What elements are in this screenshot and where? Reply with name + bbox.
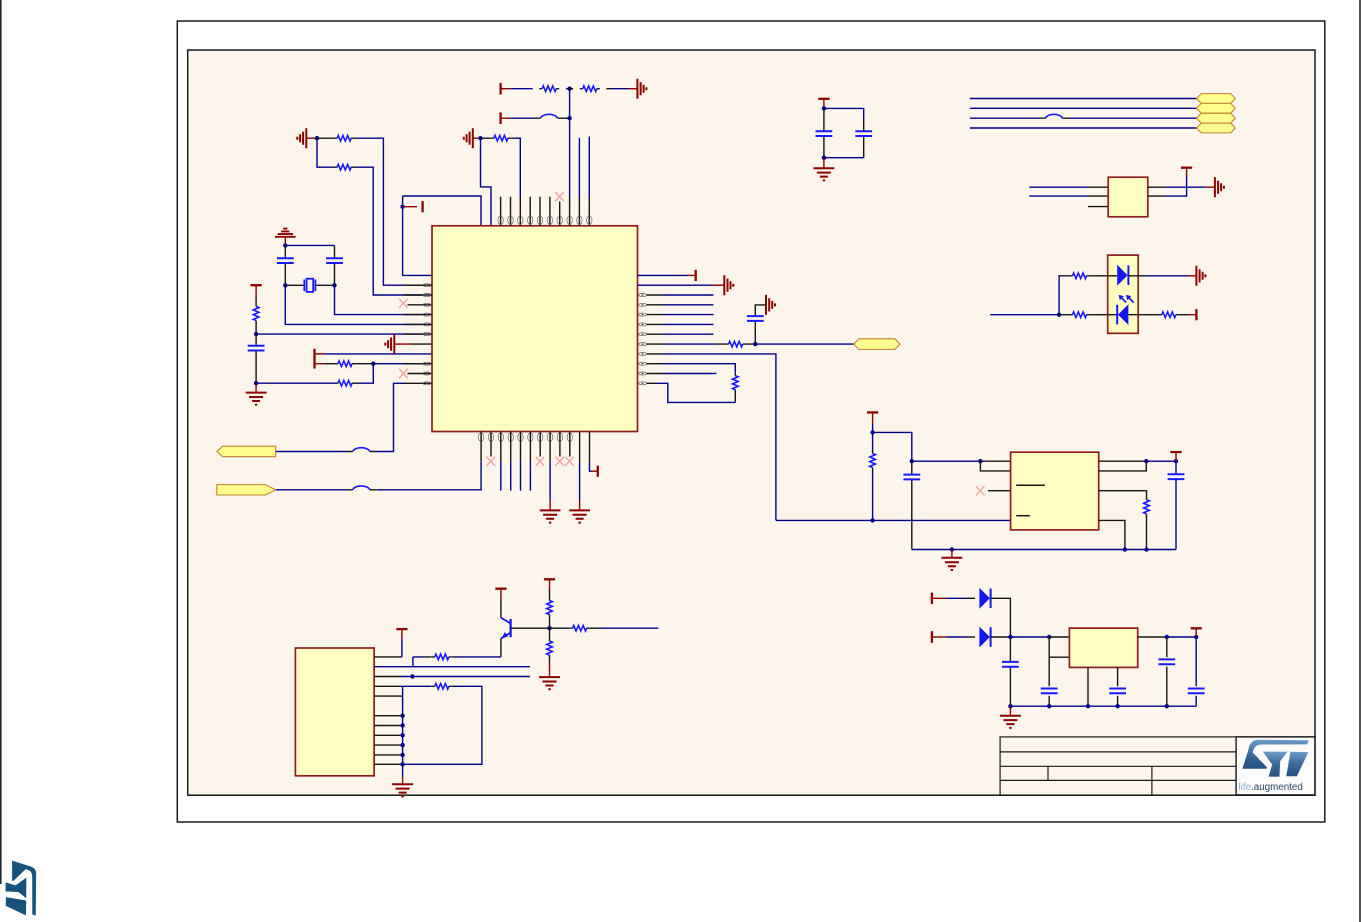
svg-text:life.augmented: life.augmented bbox=[1239, 782, 1303, 793]
port P2 (right pointing) bbox=[217, 485, 276, 495]
LED D2 (left pointing) bbox=[1108, 304, 1139, 325]
wire R4 to U1 pin L2 bbox=[357, 138, 423, 285]
diode D4 bbox=[979, 627, 990, 648]
U2 right pin1 wire bbox=[1099, 460, 1147, 462]
junction node G bbox=[283, 283, 287, 287]
junction node V bbox=[950, 547, 954, 551]
junction node I bbox=[254, 332, 258, 336]
wire W5 bbox=[970, 107, 1197, 109]
lead R13 to power port T10 bbox=[1179, 309, 1197, 320]
column junction dots bbox=[400, 714, 404, 767]
U2 pin name overbar 2 bbox=[1016, 515, 1030, 517]
power port T16 bbox=[396, 629, 407, 657]
ground G6 bbox=[1000, 706, 1021, 728]
wire U4 pin2 to power port T9 bbox=[1148, 168, 1192, 196]
wire hop W3 bbox=[346, 448, 376, 452]
inner border frame (schematic sheet) bbox=[188, 50, 1315, 795]
power port T3 (right facing) bbox=[403, 201, 423, 212]
wire LED input bbox=[990, 314, 1059, 316]
U1 right pin designator bubbles bbox=[639, 294, 647, 385]
title block outline bbox=[1000, 737, 1315, 795]
resistor R4 bbox=[317, 135, 357, 141]
wire node L to hex port bbox=[755, 343, 854, 345]
U3 bottom stub 1 bbox=[1087, 667, 1089, 706]
wire U4 input 1 bbox=[1029, 186, 1108, 188]
wire loop back to pin R12 bbox=[655, 383, 735, 402]
U1 top pin designator bubbles bbox=[498, 216, 592, 224]
resistor R1 bbox=[533, 86, 570, 92]
wire port P1 to hop bbox=[276, 451, 347, 453]
power stub T13 bbox=[932, 593, 946, 605]
pin B11 to ground bbox=[579, 432, 581, 510]
wire R16 to Q1 emitter bbox=[455, 656, 501, 658]
junction node D bbox=[400, 205, 404, 209]
capacitor C8 bbox=[1168, 461, 1185, 549]
resistor R18 (vertical pull-up) bbox=[547, 589, 553, 628]
pin R11 floating stub bbox=[647, 373, 717, 375]
wire C6 bottom to node N bbox=[824, 157, 864, 159]
resistor R13 bbox=[1159, 312, 1179, 318]
resistor R2 bbox=[570, 86, 610, 92]
junction node C bbox=[478, 136, 482, 140]
wire T1 to R1 bbox=[511, 88, 533, 90]
wire node Z jog to U3 pin2 bbox=[1049, 637, 1069, 657]
op IC U2 body bbox=[1011, 452, 1099, 530]
J1 pin stubs 5-11 bbox=[374, 696, 403, 764]
U2 pin3 stub with no-ERC X8 bbox=[976, 486, 1011, 495]
power port T5 (tall bar, dual feed) bbox=[315, 349, 326, 369]
power port T11 bbox=[867, 412, 878, 432]
capacitor C2 bbox=[326, 245, 343, 285]
earth ground E2 bbox=[464, 128, 481, 148]
Q1 base wire bbox=[511, 627, 550, 629]
capacitor C5 bbox=[816, 108, 833, 157]
junction node AA bbox=[1165, 635, 1169, 639]
page right edge line bbox=[1359, 0, 1361, 922]
small rotated ST logo bottom-left bbox=[6, 861, 37, 916]
pin B9 stub with no-ERC X6 bbox=[555, 432, 564, 466]
J1 pin1 stub bbox=[374, 656, 402, 658]
earth ground E8 bbox=[1215, 177, 1224, 197]
junction node AD bbox=[547, 626, 551, 630]
ground G7 bbox=[392, 764, 413, 796]
op IC U1 body bbox=[432, 226, 638, 432]
junction node W bbox=[1123, 547, 1127, 551]
junction node U bbox=[1174, 459, 1178, 463]
wire node E down bbox=[317, 138, 334, 167]
page left edge line bbox=[0, 0, 2, 884]
junction node L bbox=[753, 342, 757, 346]
resistor R8 bbox=[325, 361, 373, 367]
lead to U2 pin1 bbox=[980, 460, 1010, 462]
power port T2 bbox=[501, 112, 511, 124]
ground G4 bbox=[814, 158, 835, 181]
no-ERC mark X3 on pin T7 bbox=[555, 192, 564, 201]
wire D2 to R13 bbox=[1138, 314, 1161, 316]
power port T17 (collector) bbox=[495, 589, 506, 600]
capacitor C3 bbox=[248, 334, 265, 383]
ground G1 bbox=[246, 383, 267, 405]
pin R1 to power port T7 bbox=[638, 270, 696, 281]
wire R3 to U1 pin T3 bbox=[514, 138, 520, 197]
U2 right pin2 tie bbox=[1099, 461, 1147, 471]
wire node Y to node Z bbox=[1010, 636, 1049, 638]
port P1 (left pointing) bbox=[217, 446, 276, 457]
rail junction dots bbox=[1008, 704, 1169, 708]
wire node K to U1 pin L10 bbox=[373, 363, 422, 365]
junction node Q bbox=[910, 459, 914, 463]
pin R10 wire to loop resistor bbox=[647, 364, 736, 373]
LED D1 (right pointing) bbox=[1108, 265, 1139, 286]
signal ground E4 bbox=[275, 229, 296, 246]
ST logo cell bbox=[1236, 737, 1315, 795]
junction node Y bbox=[1008, 635, 1012, 639]
jog to U2 pin2 bbox=[980, 461, 1010, 471]
crystal Y1 bbox=[285, 279, 334, 292]
junction node B bbox=[567, 116, 571, 120]
resistor R15 (vertical) bbox=[1144, 497, 1150, 550]
op connector J1 body bbox=[295, 648, 374, 776]
port P5 bbox=[1197, 103, 1236, 113]
wire hop to U1 pin L12 bbox=[376, 383, 404, 451]
wire node F across top bbox=[285, 244, 334, 246]
pin R8 wire to resistor R9 bbox=[647, 343, 666, 345]
wire node T to node U bbox=[1146, 460, 1176, 462]
wire node M to C6 branch bbox=[824, 108, 864, 118]
wire U4 input 2 bbox=[1029, 195, 1108, 197]
wire main VIN rail to U2 pin4 bbox=[776, 519, 1011, 521]
U1 bottom pin designator bubbles bbox=[478, 433, 572, 441]
wire D4 to node Y bbox=[991, 636, 1010, 638]
wire hop W1 bbox=[534, 114, 564, 118]
wire W7 bbox=[970, 127, 1197, 129]
J1 ground column bbox=[402, 686, 404, 764]
resistor R16 bbox=[423, 654, 455, 660]
pin B2 stub with no-ERC X4 bbox=[487, 432, 496, 466]
power port T4 bbox=[251, 285, 262, 296]
wire T13 to D3 bbox=[946, 597, 975, 599]
U1 left pin lead blacks bbox=[404, 285, 432, 383]
port P3 hexagon bbox=[854, 339, 900, 350]
wire node O up to R11 bbox=[1059, 276, 1062, 315]
junction node E bbox=[315, 136, 319, 140]
diode D3 bbox=[979, 588, 990, 609]
junction node A bbox=[567, 87, 571, 91]
resistor R17 bbox=[432, 684, 455, 690]
pins R3-R7 floating stubs bbox=[647, 295, 714, 334]
wire D3 to node Y bbox=[991, 598, 1010, 637]
wire T14 to D4 bbox=[946, 636, 975, 638]
outer border frame bbox=[177, 21, 1325, 822]
title block row lines bbox=[1000, 752, 1236, 781]
wire node I to U1 pin L7 bbox=[256, 333, 423, 335]
junction node H bbox=[332, 283, 336, 287]
capacitor C4 bbox=[747, 305, 765, 344]
power stub T14 bbox=[932, 631, 946, 643]
capacitor C12 bbox=[1158, 637, 1175, 706]
wire pin B1 to port P2 bbox=[480, 432, 482, 462]
J1 pin4 wire to resistor R17 bbox=[374, 685, 432, 687]
junction node K bbox=[371, 362, 375, 366]
pin B12 to side power port T6 bbox=[590, 432, 598, 477]
resistor R3 bbox=[481, 135, 515, 141]
U3 bottom stub 2 with capacitor C11 bbox=[1109, 667, 1126, 706]
U3 output wire bbox=[1138, 636, 1167, 638]
wire node P to cap branch bbox=[873, 432, 912, 461]
power port T8 bbox=[818, 99, 829, 109]
power port T18 bbox=[544, 579, 555, 589]
op IC U3 body bbox=[1069, 628, 1137, 667]
resistor R5 bbox=[334, 164, 357, 170]
earth ground E3 bbox=[297, 128, 317, 148]
pin R12 lead bbox=[647, 382, 655, 384]
junction node R bbox=[870, 518, 874, 522]
ground G5 bbox=[942, 550, 963, 571]
capacitor C1 bbox=[277, 245, 294, 285]
power port T1 (VDD) bbox=[501, 83, 511, 95]
resistor R6 (vertical) bbox=[253, 296, 259, 334]
capacitor C10 bbox=[1041, 657, 1058, 706]
port P4 bbox=[1197, 94, 1236, 104]
resistor R9 bbox=[716, 341, 755, 347]
junction node J bbox=[254, 381, 258, 385]
earth ground E5 on pin L8 bbox=[385, 334, 432, 354]
wire R17 loop down to ground column bbox=[403, 686, 482, 764]
pins B3-B6 floating stubs bbox=[501, 432, 531, 491]
U2 right pin3 to R15 bbox=[1099, 491, 1147, 497]
power port T12 bbox=[1170, 452, 1181, 461]
U2 right pin4 down to rail bbox=[1099, 520, 1125, 549]
junction node AB bbox=[1194, 635, 1198, 639]
transistor Q1 bbox=[501, 599, 511, 657]
photodetector arrows bbox=[1119, 295, 1134, 303]
wire D1 to earth E9 bbox=[1138, 275, 1196, 277]
capacitor C9 bbox=[1002, 637, 1019, 706]
U1 left pin designator bubbles bbox=[423, 284, 431, 385]
wire hop to port P2 bbox=[276, 489, 347, 491]
wire node G to U1 pin L6 bbox=[285, 285, 422, 324]
ST logo graphic bbox=[1242, 740, 1308, 777]
pin R9 long wire down to regulator rail bbox=[647, 354, 776, 521]
wire T2 to hop bbox=[511, 117, 534, 119]
op IC U4 body bbox=[1108, 177, 1148, 217]
wire T5 to U1 pin L9 bbox=[325, 353, 432, 355]
wire node A down to U1 pin T8 bbox=[569, 89, 571, 197]
no-ERC mark X2 on pin L11 bbox=[399, 369, 432, 378]
no-ERC mark X1 on pin L4 bbox=[399, 299, 432, 308]
wire hop to junction bbox=[564, 117, 570, 119]
wire node C down into U1 top edge bbox=[481, 138, 492, 226]
wire stub to U1 pin T10 bbox=[588, 137, 590, 198]
junction node Z bbox=[1047, 635, 1051, 639]
op IC U5 body (LED pair) bbox=[1108, 255, 1139, 333]
wire R7 up to node K bbox=[358, 364, 373, 384]
resistor R7 bbox=[335, 380, 358, 386]
wire R20 output bbox=[599, 627, 658, 629]
wire R2 to earth bbox=[610, 88, 628, 90]
title block column dividers bbox=[1048, 766, 1152, 795]
U4 stub pin 3 bbox=[1088, 206, 1108, 208]
port P6 bbox=[1197, 113, 1236, 123]
capacitor C13 bbox=[1188, 637, 1205, 706]
wire node J to R7 bbox=[256, 382, 335, 384]
junction node X bbox=[1144, 547, 1148, 551]
pin B7 stub with no-ERC X5 bbox=[536, 432, 545, 466]
earth ground E9 bbox=[1196, 266, 1205, 286]
capacitor C7 bbox=[903, 461, 920, 549]
power port T15 bbox=[1191, 628, 1202, 637]
wire U4 out to earth E8 bbox=[1148, 186, 1215, 188]
wire node Z to U3 pin1 bbox=[1049, 636, 1069, 638]
pin B10 stub with no-ERC X7 bbox=[565, 432, 574, 466]
junction node AC bbox=[410, 674, 414, 678]
J1 pin3 wire bbox=[374, 676, 530, 678]
junction node M bbox=[822, 106, 826, 110]
wire emitter row to resistor R16 bbox=[413, 657, 423, 667]
junction node T bbox=[1144, 459, 1148, 463]
U2 pin name overbar 1 bbox=[1016, 484, 1045, 486]
junction node S bbox=[978, 459, 982, 463]
wire node D rail down to U1 pin L1 bbox=[403, 196, 432, 275]
ground G8 bbox=[539, 662, 560, 689]
ground G3 bbox=[569, 510, 590, 522]
J1 pin2 wire bbox=[374, 666, 530, 668]
resistor R12 bbox=[1059, 312, 1108, 318]
wire W6 with hop bbox=[970, 114, 1197, 118]
capacitor C6 bbox=[855, 118, 872, 158]
ground rail of U2 bbox=[912, 549, 1176, 551]
junction node N bbox=[822, 156, 826, 160]
resistor R20 bbox=[550, 625, 600, 631]
wire VSS entry at y196 bbox=[403, 196, 481, 226]
wire node AA to node AB bbox=[1167, 636, 1196, 638]
resistor R14 (vertical) bbox=[870, 432, 876, 520]
ground rail of U3 bbox=[1010, 705, 1196, 707]
pin R2 to earth E6 bbox=[638, 275, 734, 295]
wire stub to U1 pin T9 bbox=[578, 138, 580, 197]
wire hop W2 bbox=[346, 486, 376, 490]
ground G2 bbox=[540, 510, 561, 522]
junction node F bbox=[283, 243, 287, 247]
resistor R10 (vertical) bbox=[733, 373, 739, 403]
U1 top pin stubs bbox=[501, 197, 590, 226]
earth ground E1 bbox=[628, 79, 646, 99]
wire node H to U1 pin L5 bbox=[335, 285, 423, 314]
wire R5 to U1 pin L3 bbox=[357, 167, 423, 295]
port P7 bbox=[1197, 123, 1236, 133]
earth ground E7 bbox=[765, 295, 775, 315]
resistor R11 bbox=[1062, 273, 1108, 279]
wire node Q to U2 pin1 bbox=[912, 460, 981, 462]
wire W4 bbox=[970, 98, 1197, 100]
junction node O bbox=[1057, 313, 1061, 317]
resistor R19 (vertical pull-down) bbox=[547, 628, 553, 662]
junction node P bbox=[870, 430, 874, 434]
pin B8 to ground bbox=[549, 432, 551, 510]
